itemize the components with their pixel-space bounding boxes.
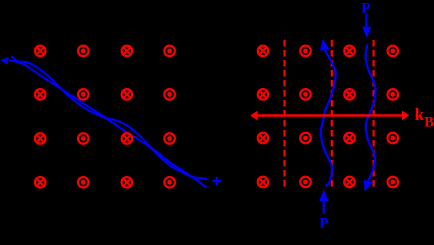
left lattice row3: B out of page col2 <box>78 133 89 144</box>
right lattice row4: B out of page col2 <box>300 177 311 188</box>
left lattice row2: B out of page col4 <box>164 89 175 100</box>
left lattice row3: B into page col1 <box>35 133 46 144</box>
svg-text:P: P <box>361 1 370 17</box>
left lattice row3: B into page col3 <box>122 133 132 144</box>
right lattice row4: B into page col1 <box>258 177 269 188</box>
polarization arrow P top (pointing down) <box>365 14 367 28</box>
polarization arrow P bottom (pointing up) <box>319 190 328 201</box>
wavy spin-wave line right (right panel) <box>365 45 375 182</box>
magnon arrowhead (left panel, pointing upper-left) <box>0 57 8 65</box>
down arrowhead of right wavy line <box>364 180 373 192</box>
svg-text:B: B <box>424 115 434 131</box>
wavy spin-wave line left (right panel) <box>321 50 336 187</box>
right lattice row4: B out of page col4 <box>388 177 399 188</box>
right lattice row2: B out of page col2 <box>300 89 311 100</box>
up arrowhead of left wavy line <box>320 39 329 51</box>
plus-sign label at trajectory end <box>213 180 221 182</box>
domain wall dashed line 2 (right panel) <box>331 40 333 189</box>
right lattice row2: B into page col3 <box>344 89 355 100</box>
left lattice row4: B into page col1 <box>35 177 46 188</box>
right lattice row2: B into page col1 <box>258 89 269 100</box>
right lattice row2: B out of page col4 <box>388 89 399 100</box>
right lattice row3: B out of page col2 <box>300 133 311 144</box>
right lattice row4: B into page col3 <box>344 177 355 188</box>
svg-text:k: k <box>415 105 425 124</box>
left lattice row1: B into page col3 <box>122 46 132 57</box>
right lattice row1: B into page col3 <box>344 46 355 57</box>
magnon trajectory center line (left panel) <box>10 61 207 188</box>
left lattice row1: B out of page col2 <box>78 46 89 57</box>
domain wall dashed line 1 (right panel) <box>283 40 285 189</box>
left lattice row2: B into page col3 <box>122 89 132 100</box>
right lattice row3: B into page col3 <box>344 133 355 144</box>
magnon wave-vector double arrow k_B <box>256 114 404 116</box>
left lattice row1: B out of page col4 <box>164 46 175 57</box>
left lattice row1: B into page col1 <box>35 46 46 57</box>
left lattice row4: B out of page col2 <box>78 177 89 188</box>
left lattice row3: B out of page col4 <box>164 133 175 144</box>
left lattice row4: B out of page col4 <box>164 177 175 188</box>
right lattice row3: B out of page col4 <box>388 133 399 144</box>
right lattice row1: B out of page col4 <box>388 46 399 57</box>
right lattice row3: B into page col1 <box>258 133 269 144</box>
left lattice row2: B out of page col2 <box>78 89 89 100</box>
left lattice row4: B into page col3 <box>122 177 132 188</box>
right lattice row1: B into page col1 <box>258 46 269 57</box>
left lattice row2: B into page col1 <box>35 89 46 100</box>
magnon spin-wave strand (left panel) <box>12 56 208 179</box>
right lattice row1: B out of page col2 <box>300 46 311 57</box>
svg-text:P: P <box>319 216 328 232</box>
domain wall dashed line 3 (right panel) <box>373 40 375 189</box>
